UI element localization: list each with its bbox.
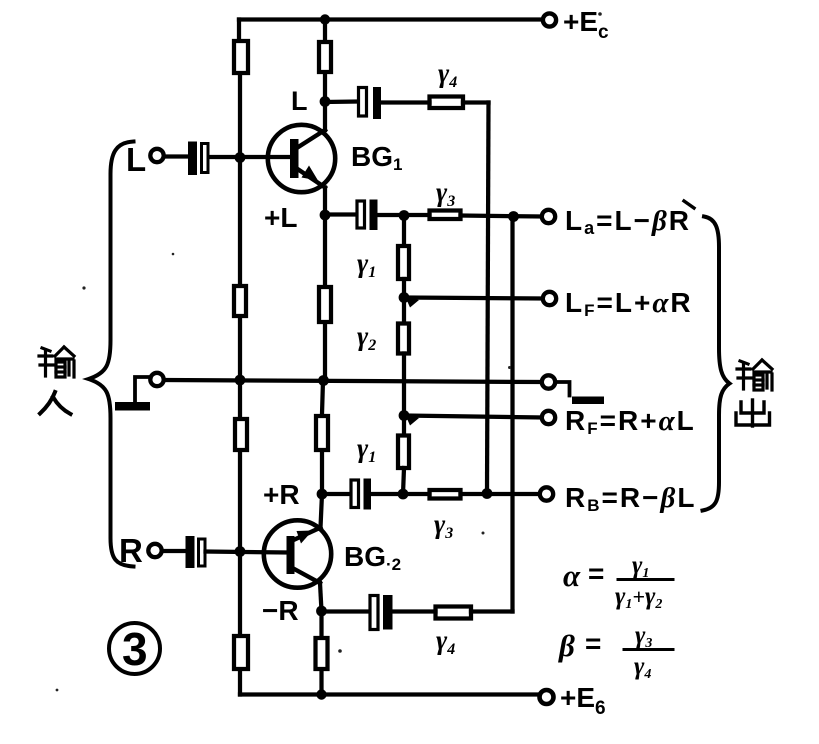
wire r3 lower to RB terminal — [461, 492, 540, 496]
junction dot rail1 R row — [235, 546, 246, 557]
svg-text:γ1+γ2: γ1+γ2 — [615, 583, 662, 612]
resistor r3 lower — [430, 490, 461, 499]
transistor BG1 circle — [268, 125, 335, 192]
junction dot chain bottom — [398, 489, 409, 500]
resistor r3 top — [430, 211, 461, 220]
transistor BG2 circle — [264, 520, 331, 587]
wire LF tap to terminal with arrow — [404, 298, 544, 299]
junction dot bottom rail — [316, 689, 326, 699]
capacitor C6 plate thin — [370, 596, 378, 630]
svg-text:L: L — [126, 141, 146, 178]
wire bottom supply rail — [240, 692, 538, 696]
terminal RF output — [542, 411, 555, 424]
wire chain top to r3 — [404, 213, 430, 217]
capacitor C5 plate thick — [364, 479, 372, 510]
svg-text:+R: +R — [263, 479, 300, 510]
terminal center-right output — [542, 375, 555, 388]
node +R junction dot — [317, 489, 328, 500]
label shu (output) hanzi — [737, 360, 772, 390]
junction dot RB vertical A — [482, 488, 493, 499]
transistor BG1 emitter arrow — [302, 166, 319, 181]
wire node +R to capacitor C5 — [322, 492, 350, 496]
node L junction dot — [320, 96, 331, 107]
label chu (output) hanzi — [736, 400, 770, 426]
svg-text:RB=R−βL: RB=R−βL — [565, 482, 696, 515]
junction dot LB vertical B — [508, 211, 519, 222]
resistor rail2 top — [319, 42, 331, 72]
wire r1 lower to +R row — [403, 468, 404, 494]
resistor bias rail1 second — [234, 286, 246, 316]
wire left bias rail (rail 1) segments — [237, 20, 241, 40]
junction dot rail2 center — [318, 375, 329, 386]
svg-text:3: 3 — [122, 623, 148, 675]
junction dot LF tap — [399, 292, 410, 303]
resistor rail2 emitter BG1 — [319, 287, 331, 322]
transistor BG1 emitter line — [296, 168, 325, 188]
ground right stem — [556, 382, 570, 396]
capacitor C6 plate thick — [383, 595, 393, 630]
transistor BG2 emitter line up — [293, 528, 321, 541]
brace input left — [89, 142, 134, 567]
scan speckles — [56, 12, 602, 691]
wire node +L to capacitor C4 — [325, 212, 356, 216]
wire C5 to chain bottom junction — [371, 492, 403, 496]
resistor rail2 collector BG2 — [316, 416, 328, 450]
wire r2 down across center row to RF tap — [402, 354, 406, 416]
wire r3 to LB terminal — [461, 216, 542, 217]
wire r4 lower to corner — [471, 609, 513, 613]
svg-text:RF=R+αL: RF=R+αL — [565, 405, 696, 438]
wire C2 to rail1 junction and BG2 base — [206, 552, 287, 553]
wire top supply rail — [239, 17, 541, 21]
transistor BG1 collector line — [296, 130, 325, 149]
arrow RF wire — [405, 414, 419, 426]
terminal LF output — [543, 292, 556, 305]
wire vertical B from r4 lower up to LB row — [510, 217, 514, 612]
capacitor C4 plate thin — [357, 201, 365, 228]
capacitor C3 plate thin — [359, 88, 367, 117]
wire vertical A from r4 down to RB row — [487, 103, 489, 494]
transistor BG2 collector line down — [293, 568, 321, 583]
svg-text:α: α — [563, 558, 581, 593]
junction dot rail1 center — [235, 375, 246, 386]
resistor chain r1 lower — [402, 416, 406, 434]
terminal +Ec — [543, 13, 556, 26]
resistor bias rail1 top — [234, 41, 248, 73]
terminal RB output — [540, 487, 553, 500]
wire RF tap to terminal with arrow — [404, 416, 542, 418]
svg-text:β: β — [558, 628, 575, 663]
resistor rail2 bottom — [316, 638, 328, 669]
node +L junction dot — [320, 210, 331, 221]
wire C4 to chain top junction — [378, 213, 405, 217]
node -R junction dot — [316, 606, 327, 617]
resistor bias rail1 bottom — [234, 636, 248, 669]
resistor r4 top — [430, 97, 464, 109]
ground left stem — [135, 377, 151, 401]
node +Ec junction dot — [320, 14, 330, 24]
capacitor C3 plate thick — [373, 87, 381, 119]
transistor BG1 base bar — [290, 139, 299, 178]
capacitor C1 L-input plate thick — [188, 142, 197, 176]
svg-text:=: = — [585, 628, 601, 659]
svg-text:−R: −R — [262, 595, 299, 626]
brace output right — [703, 217, 730, 511]
label ru (input) hanzi — [40, 392, 71, 414]
resistor chain r2 — [402, 298, 406, 322]
junction dot rail1 L row — [235, 152, 246, 163]
wire r4 to corner — [463, 100, 489, 104]
wire node -R to capacitor C6 — [322, 609, 370, 613]
label shu (input) hanzi — [39, 347, 74, 377]
tick after LB equation — [684, 201, 694, 208]
junction dot chain top — [399, 210, 410, 221]
capacitor C4 plate thick — [370, 200, 378, 231]
capacitor C2 R-input plate thick — [186, 536, 195, 568]
arrow LF wire — [405, 296, 419, 308]
terminal L input — [150, 149, 163, 162]
svg-text:R: R — [119, 532, 143, 569]
wire node L to capacitor C3 — [325, 99, 357, 104]
capacitor C1 L-input plate thin — [202, 144, 209, 173]
capacitor C5 plate thin — [351, 480, 359, 508]
wire chain bottom to r3 lower — [403, 492, 430, 496]
wire C1 to rail1 junction and BG1 base — [209, 155, 290, 159]
terminal R input — [148, 544, 161, 557]
figure number circled 3 — [109, 623, 160, 674]
ground right bar — [572, 397, 604, 405]
wire collector rail (rail 2) top segments — [323, 20, 327, 41]
junction dot RF tap — [399, 410, 410, 421]
resistor r4 lower — [436, 607, 472, 619]
terminal +Eb — [540, 690, 554, 704]
wire L input to capacitor — [164, 154, 188, 158]
wire C3 to resistor r4 — [381, 100, 430, 104]
wire rail2 lower segments — [322, 381, 323, 415]
terminal LB output — [542, 210, 555, 223]
resistor bias rail1 third — [235, 419, 247, 450]
wire C6 to resistor r4 lower — [393, 609, 436, 613]
ground left bar — [115, 402, 150, 411]
svg-text:=: = — [588, 558, 604, 589]
svg-text:La=L−βR: La=L−βR — [565, 205, 691, 238]
svg-text:+L: +L — [264, 202, 297, 233]
transistor BG2 base bar — [287, 536, 295, 574]
resistor chain r1 upper — [402, 219, 406, 244]
capacitor C2 R-input plate thin — [199, 539, 206, 566]
transistor BG2 emitter arrow — [297, 531, 313, 544]
wire center row — [164, 380, 543, 382]
terminal ground-center input — [150, 373, 163, 386]
svg-text:L: L — [291, 86, 308, 116]
wire r1 to LF junction — [402, 279, 406, 298]
wire R input to capacitor — [162, 549, 186, 553]
